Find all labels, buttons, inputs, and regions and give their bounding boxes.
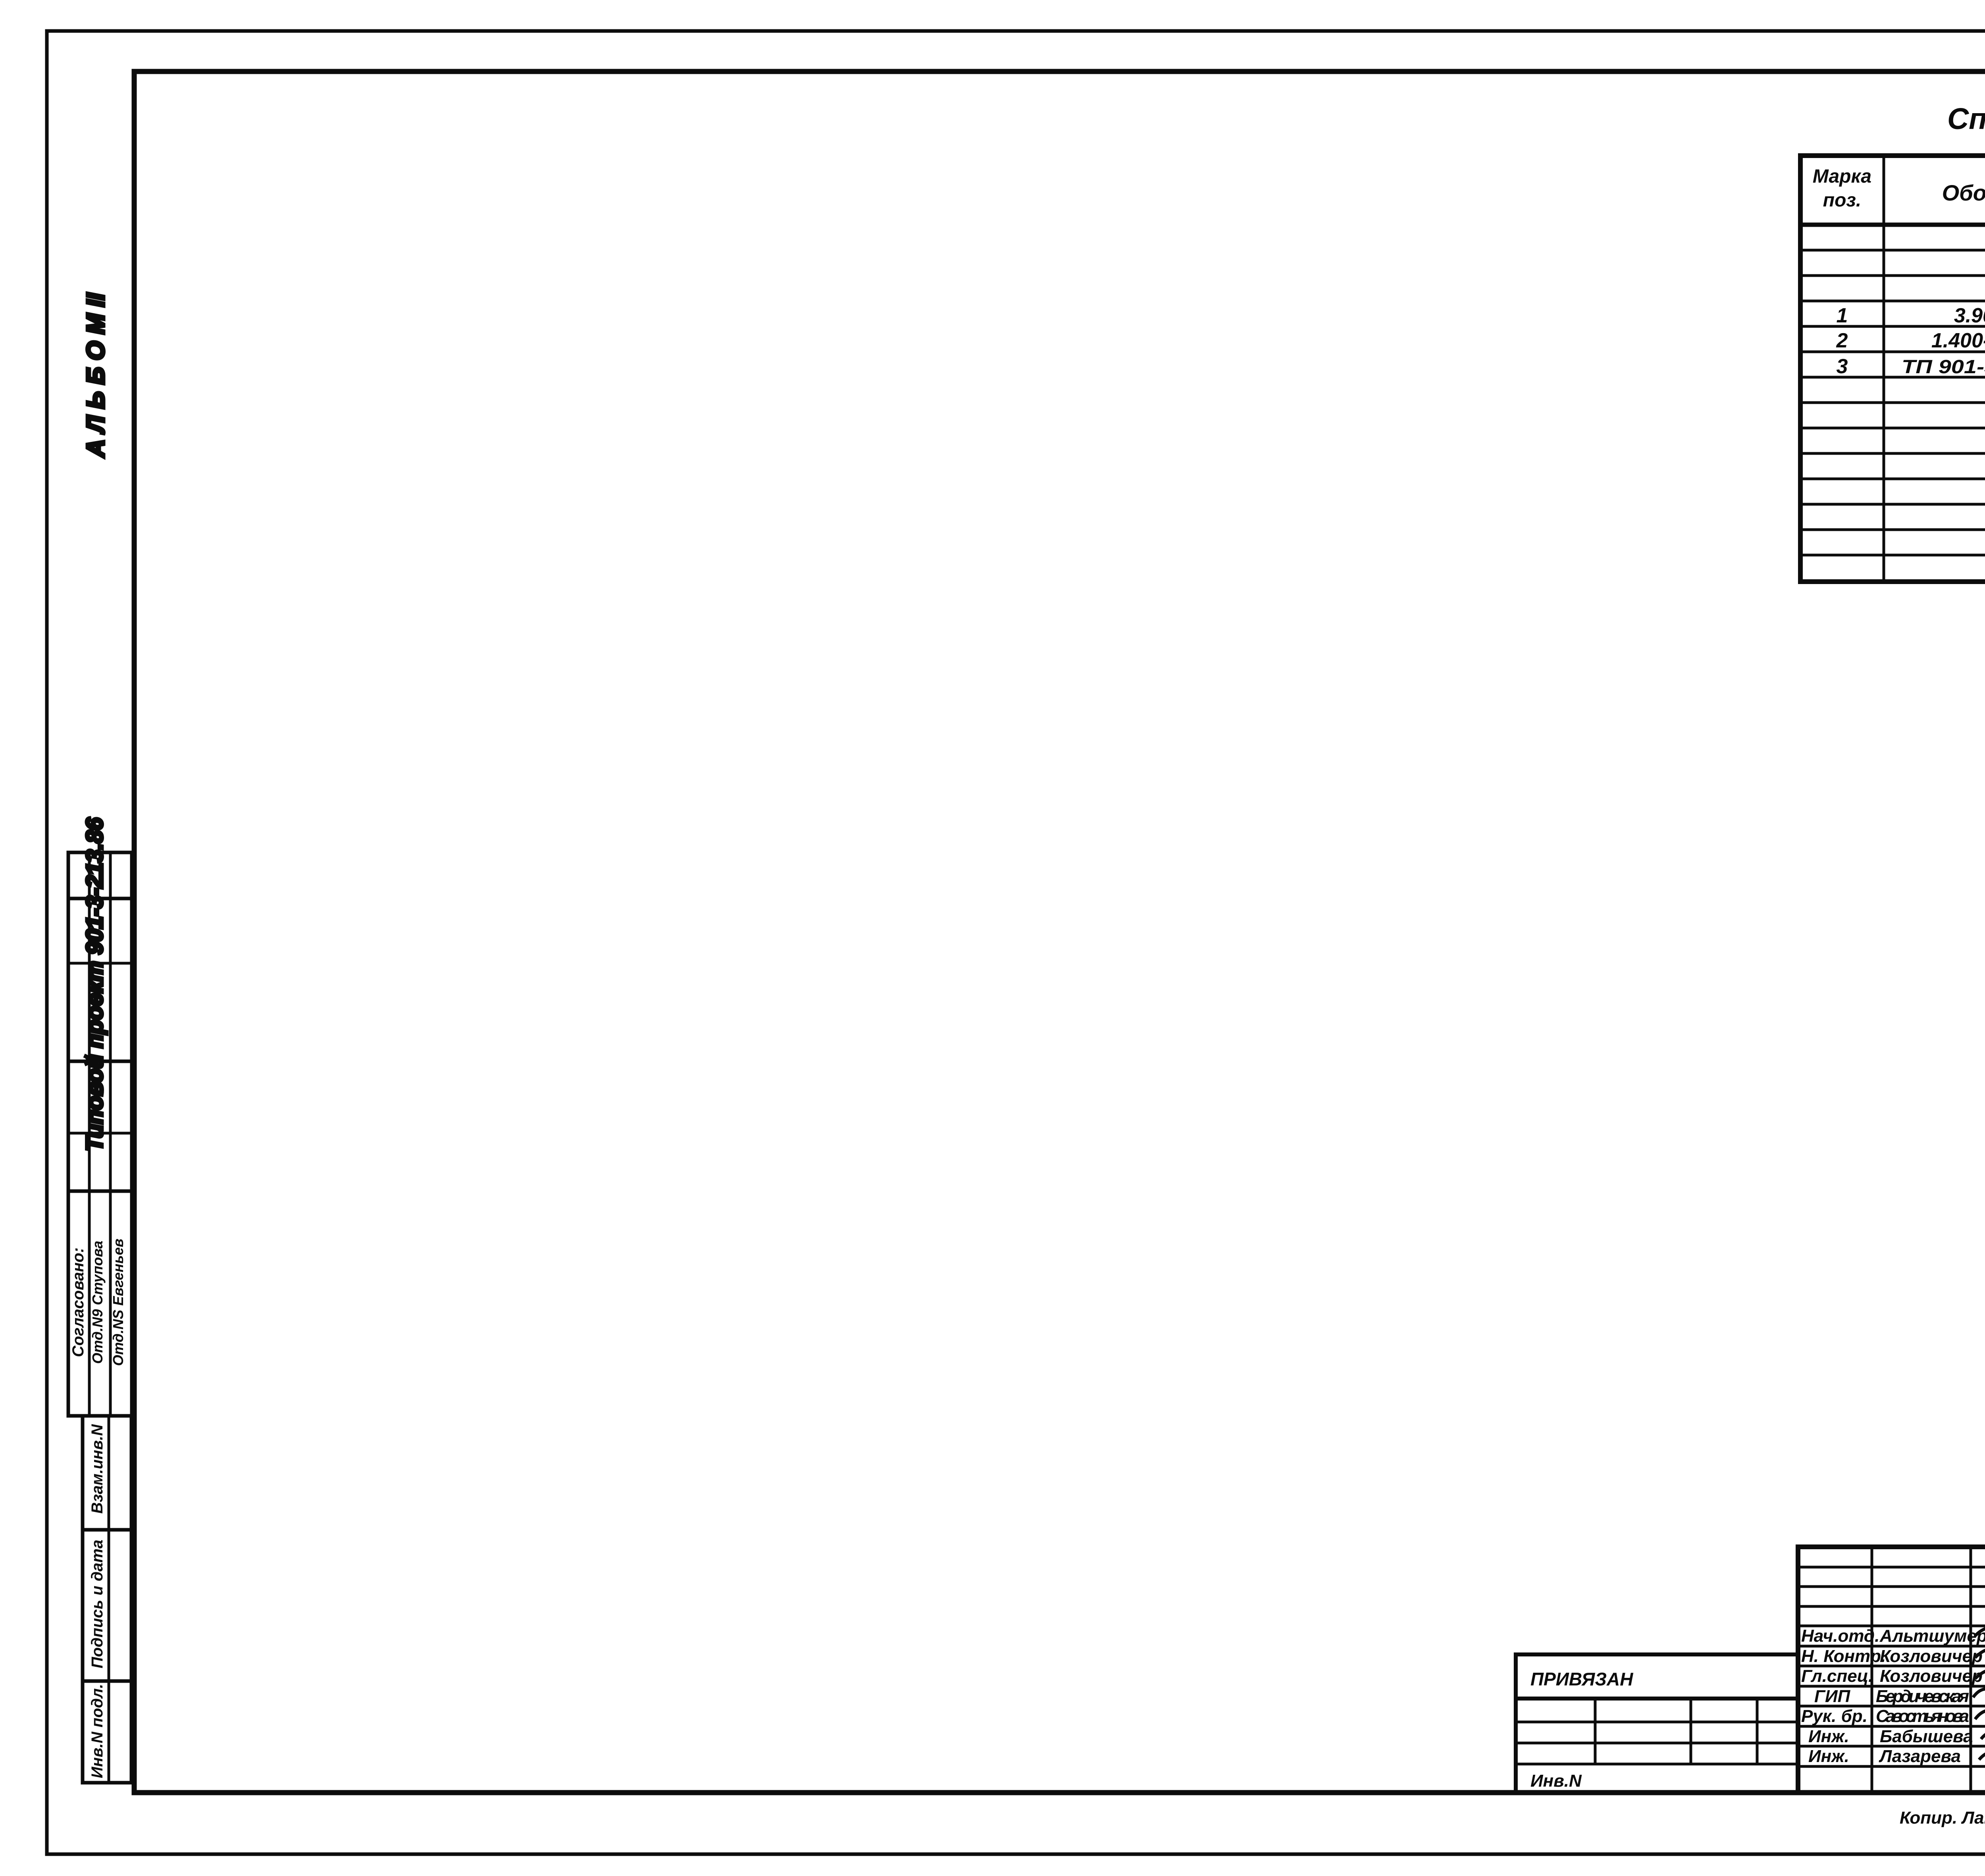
svg-text:1.400-15 Вып.0,1: 1.400-15 Вып.0,1 bbox=[1931, 329, 1985, 352]
svg-text:Инв.N подл.: Инв.N подл. bbox=[89, 1684, 106, 1778]
svg-text:Обозначение: Обозначение bbox=[1942, 180, 1985, 205]
svg-text:3: 3 bbox=[1837, 355, 1848, 378]
svg-text:А Л Ь Б О М II: А Л Ь Б О М II bbox=[82, 293, 110, 458]
svg-text:3.901-6: 3.901-6 bbox=[1954, 304, 1985, 327]
svg-text:Согласовано:: Согласовано: bbox=[69, 1247, 87, 1357]
svg-text:Спецификация каналов: Спецификация каналов bbox=[1947, 102, 1985, 135]
svg-text:Инж.: Инж. bbox=[1808, 1747, 1849, 1766]
svg-text:Савостьянова: Савостьянова bbox=[1876, 1706, 1969, 1726]
svg-text:Рук. бр.: Рук. бр. bbox=[1801, 1706, 1867, 1726]
svg-text:Отд.N9 Ступова: Отд.N9 Ступова bbox=[89, 1241, 106, 1364]
SPEC TABLE bbox=[1800, 102, 1985, 582]
svg-text:Взам.инв.N: Взам.инв.N bbox=[89, 1424, 106, 1514]
signature area verticals bbox=[1871, 1547, 1873, 1793]
svg-text:Нач.отд.: Нач.отд. bbox=[1801, 1626, 1879, 1646]
svg-text:Бердичевская: Бердичевская bbox=[1876, 1687, 1969, 1706]
svg-text:Козловичер: Козловичер bbox=[1880, 1647, 1983, 1666]
svg-text:ТП 901-3-213.86 -КЖ: ТП 901-3-213.86 -КЖ bbox=[1902, 357, 1985, 378]
svg-text:Подпись и дата: Подпись и дата bbox=[89, 1540, 106, 1668]
svg-text:Типовой проект 901-3-213.86: Типовой проект 901-3-213.86 bbox=[82, 817, 108, 1151]
privyazan box bbox=[1516, 1654, 1798, 1793]
signatures squiggles bbox=[1973, 1628, 1985, 1764]
svg-text:1: 1 bbox=[1837, 304, 1848, 327]
svg-text:Инж.: Инж. bbox=[1808, 1727, 1849, 1746]
svg-text:ГИП: ГИП bbox=[1814, 1687, 1851, 1706]
svg-text:Бабышева: Бабышева bbox=[1880, 1727, 1973, 1746]
LEFT SIDEBAR bbox=[68, 293, 132, 1783]
svg-text:Лазарева: Лазарева bbox=[1879, 1747, 1961, 1766]
svg-text:Гл.спец.: Гл.спец. bbox=[1801, 1666, 1873, 1686]
upper sogl table bbox=[68, 852, 132, 1416]
signature rows bbox=[1798, 1566, 1985, 1569]
svg-text:ПРИВЯЗАН: ПРИВЯЗАН bbox=[1530, 1669, 1633, 1689]
svg-text:Копир. Лаврухина: Копир. Лаврухина bbox=[1900, 1808, 1985, 1828]
TITLE BLOCK bbox=[1516, 1547, 1985, 1853]
svg-text:Козловичер: Козловичер bbox=[1880, 1666, 1983, 1686]
svg-text:Инв.N: Инв.N bbox=[1530, 1771, 1582, 1791]
svg-text:2: 2 bbox=[1836, 329, 1848, 352]
svg-text:Н. Контр.: Н. Контр. bbox=[1801, 1647, 1886, 1666]
svg-text:Альтшумер: Альтшумер bbox=[1879, 1626, 1985, 1646]
svg-text:Отд.NS Евгеньев: Отд.NS Евгеньев bbox=[110, 1239, 126, 1366]
svg-text:поз.: поз. bbox=[1823, 190, 1861, 211]
svg-text:Марка: Марка bbox=[1813, 166, 1871, 187]
lower table bbox=[83, 1416, 131, 1783]
